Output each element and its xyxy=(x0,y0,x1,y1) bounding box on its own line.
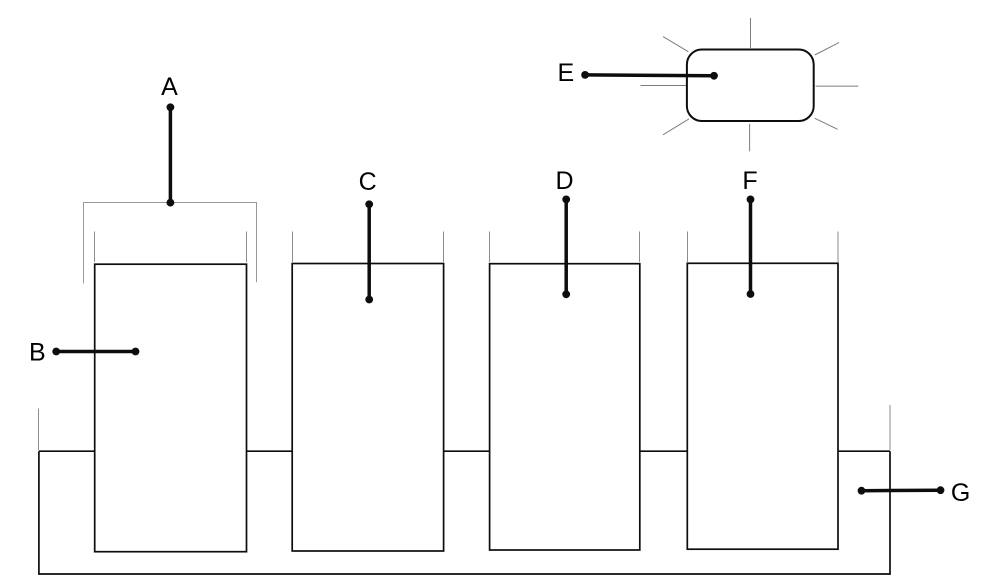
svg-text:B: B xyxy=(29,339,46,367)
svg-text:D: D xyxy=(555,167,573,195)
svg-text:G: G xyxy=(951,479,970,507)
svg-text:A: A xyxy=(161,73,178,101)
svg-text:C: C xyxy=(359,168,377,196)
svg-text:F: F xyxy=(742,167,757,195)
svg-text:E: E xyxy=(557,59,574,87)
